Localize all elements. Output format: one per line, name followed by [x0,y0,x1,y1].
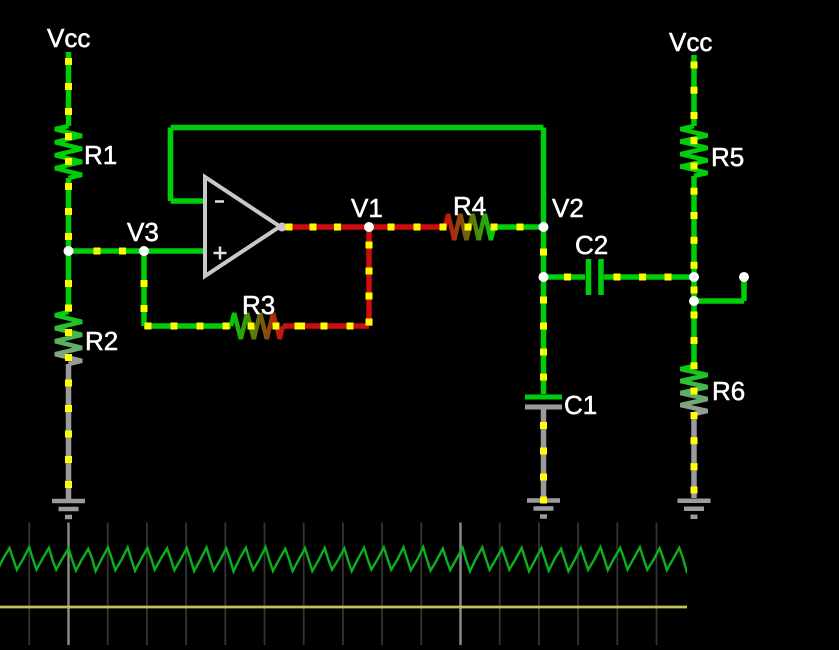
svg-text:V3: V3 [127,217,159,247]
svg-text:V1: V1 [351,193,383,223]
svg-text:Vcc: Vcc [669,27,712,57]
svg-text:C2: C2 [575,230,608,260]
svg-text:Vcc: Vcc [47,23,90,53]
svg-text:R3: R3 [242,290,275,320]
svg-text:V2: V2 [552,193,584,223]
svg-text:R2: R2 [85,326,118,356]
svg-text:R6: R6 [712,376,745,406]
svg-text:R4: R4 [453,191,486,221]
svg-text:R5: R5 [711,142,744,172]
svg-text:C1: C1 [564,390,597,420]
svg-text:R1: R1 [84,140,117,170]
